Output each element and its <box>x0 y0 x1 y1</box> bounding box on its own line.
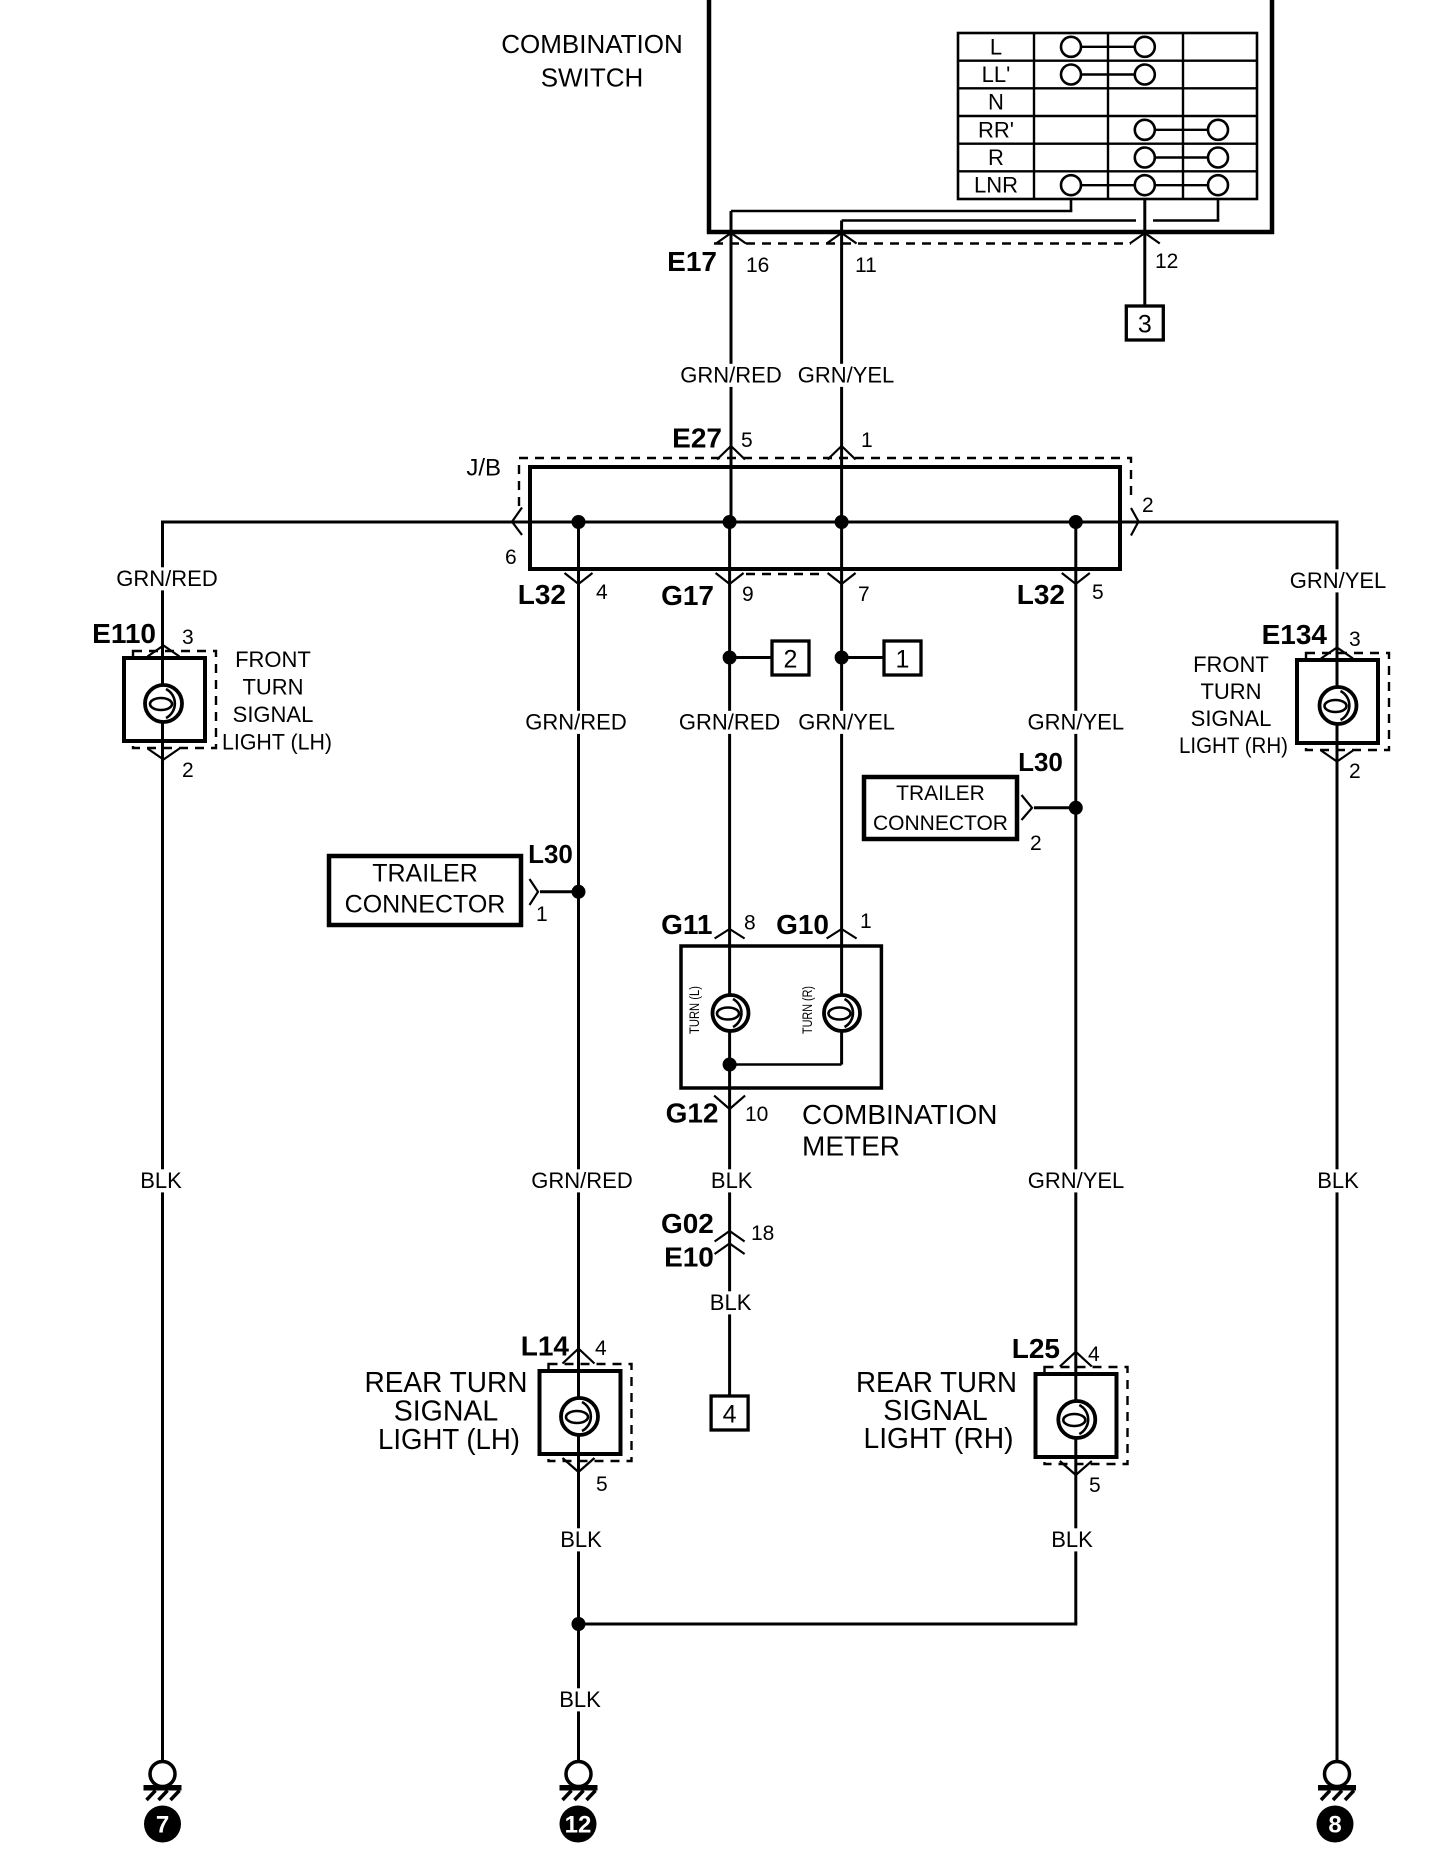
svg-text:TURN (L): TURN (L) <box>686 986 702 1034</box>
svg-text:N: N <box>988 90 1004 115</box>
svg-text:12: 12 <box>565 1812 592 1839</box>
svg-text:16: 16 <box>746 254 769 277</box>
svg-text:5: 5 <box>741 429 753 452</box>
svg-text:2: 2 <box>784 646 798 674</box>
svg-text:E27: E27 <box>672 423 722 454</box>
svg-text:7: 7 <box>156 1812 169 1839</box>
svg-text:11: 11 <box>855 254 877 277</box>
svg-text:TURN (R): TURN (R) <box>799 986 815 1034</box>
svg-text:COMBINATION: COMBINATION <box>802 1099 997 1130</box>
svg-text:BLK: BLK <box>560 1527 602 1552</box>
svg-text:E110: E110 <box>92 618 156 649</box>
svg-text:6: 6 <box>505 546 517 569</box>
svg-text:8: 8 <box>1328 1812 1341 1839</box>
svg-text:GRN/YEL: GRN/YEL <box>1028 710 1125 735</box>
svg-text:G12: G12 <box>666 1098 719 1129</box>
svg-text:SIGNAL: SIGNAL <box>233 702 314 727</box>
svg-text:L30: L30 <box>1018 747 1063 777</box>
svg-text:TURN: TURN <box>1200 679 1261 704</box>
svg-text:GRN/RED: GRN/RED <box>525 710 626 735</box>
svg-text:BLK: BLK <box>711 1168 753 1193</box>
svg-text:L32: L32 <box>518 579 566 610</box>
svg-text:3: 3 <box>1349 628 1361 651</box>
svg-text:J/B: J/B <box>466 455 501 482</box>
svg-text:TURN: TURN <box>242 675 303 700</box>
svg-text:SIGNAL: SIGNAL <box>394 1396 499 1428</box>
svg-text:BLK: BLK <box>1051 1527 1093 1552</box>
svg-text:2: 2 <box>182 759 194 782</box>
svg-text:9: 9 <box>742 583 754 606</box>
svg-text:TRAILER: TRAILER <box>896 782 985 805</box>
svg-text:CONNECTOR: CONNECTOR <box>345 891 506 919</box>
svg-text:BLK: BLK <box>1317 1168 1359 1193</box>
svg-text:2: 2 <box>1030 832 1042 855</box>
svg-text:L: L <box>990 34 1002 59</box>
svg-text:REAR TURN: REAR TURN <box>365 1367 528 1399</box>
svg-text:G11: G11 <box>661 909 712 940</box>
svg-text:BLK: BLK <box>140 1168 182 1193</box>
svg-text:12: 12 <box>1155 250 1178 273</box>
svg-text:LIGHT (RH): LIGHT (RH) <box>1179 733 1288 758</box>
svg-text:GRN/RED: GRN/RED <box>116 566 217 591</box>
svg-text:L30: L30 <box>528 839 573 869</box>
svg-text:GRN/YEL: GRN/YEL <box>1290 568 1387 593</box>
svg-text:RR': RR' <box>978 117 1014 142</box>
svg-text:G17: G17 <box>661 580 714 611</box>
svg-text:3: 3 <box>1138 311 1152 339</box>
svg-text:SWITCH: SWITCH <box>541 63 644 93</box>
svg-text:1: 1 <box>860 910 872 933</box>
svg-text:BLK: BLK <box>559 1687 601 1712</box>
svg-text:TRAILER: TRAILER <box>372 860 478 888</box>
svg-text:1: 1 <box>861 429 873 452</box>
svg-text:10: 10 <box>745 1103 768 1126</box>
svg-text:FRONT: FRONT <box>235 647 311 672</box>
svg-text:G02: G02 <box>661 1208 714 1239</box>
svg-text:5: 5 <box>596 1473 608 1496</box>
svg-text:GRN/RED: GRN/RED <box>680 363 781 388</box>
svg-text:LNR: LNR <box>974 173 1018 198</box>
svg-text:8: 8 <box>744 912 756 935</box>
svg-text:4: 4 <box>596 581 608 604</box>
svg-text:2: 2 <box>1349 760 1361 783</box>
svg-text:E10: E10 <box>664 1242 714 1273</box>
svg-text:1: 1 <box>896 646 910 674</box>
svg-text:L14: L14 <box>521 1331 570 1362</box>
svg-text:4: 4 <box>1088 1343 1100 1366</box>
svg-text:5: 5 <box>1092 581 1104 604</box>
svg-text:4: 4 <box>595 1337 607 1360</box>
svg-text:5: 5 <box>1089 1474 1101 1497</box>
svg-text:L25: L25 <box>1012 1333 1060 1364</box>
svg-text:E17: E17 <box>667 246 717 277</box>
svg-text:LIGHT (LH): LIGHT (LH) <box>222 730 332 755</box>
svg-text:FRONT: FRONT <box>1193 652 1269 677</box>
svg-text:G10: G10 <box>776 909 829 940</box>
svg-text:1: 1 <box>536 903 548 926</box>
svg-text:18: 18 <box>751 1222 774 1245</box>
svg-text:GRN/YEL: GRN/YEL <box>1028 1168 1125 1193</box>
svg-text:CONNECTOR: CONNECTOR <box>873 812 1008 835</box>
svg-text:BLK: BLK <box>710 1290 752 1315</box>
svg-text:3: 3 <box>182 626 194 649</box>
svg-text:GRN/YEL: GRN/YEL <box>798 363 895 388</box>
svg-text:7: 7 <box>858 583 870 606</box>
svg-text:METER: METER <box>802 1131 900 1162</box>
svg-text:GRN/RED: GRN/RED <box>531 1168 632 1193</box>
svg-text:LL': LL' <box>982 62 1011 87</box>
svg-text:E134: E134 <box>1262 619 1328 650</box>
svg-text:LIGHT (LH): LIGHT (LH) <box>378 1424 520 1456</box>
svg-text:2: 2 <box>1142 494 1154 517</box>
svg-text:GRN/YEL: GRN/YEL <box>798 710 895 735</box>
svg-text:LIGHT (RH): LIGHT (RH) <box>864 1423 1014 1455</box>
svg-text:SIGNAL: SIGNAL <box>1191 706 1272 731</box>
svg-text:4: 4 <box>723 1401 737 1429</box>
svg-text:L32: L32 <box>1017 579 1065 610</box>
svg-text:GRN/RED: GRN/RED <box>679 710 780 735</box>
svg-text:COMBINATION: COMBINATION <box>501 29 683 59</box>
svg-text:R: R <box>988 145 1004 170</box>
